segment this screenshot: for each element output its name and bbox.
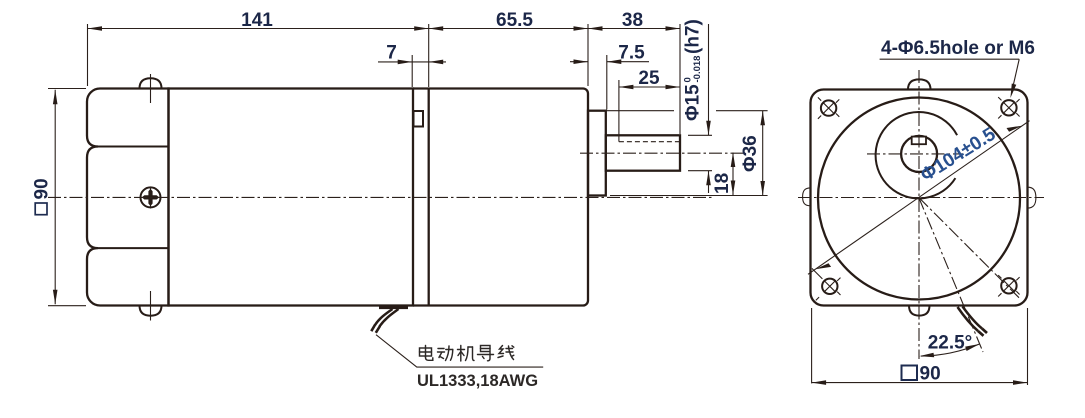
horizontal centerline (798, 197, 1044, 199)
corner hole bottom-right (998, 275, 1019, 296)
dimension phi15 line lower (708, 171, 710, 193)
diagonal centerline to bottom-right hole (919, 198, 1019, 298)
boss circle arc (876, 112, 958, 198)
gearhead cap outline (87, 89, 169, 306)
lead wire callout leader (376, 335, 543, 367)
motor lead wires (380, 309, 399, 327)
dimension 141 line (88, 28, 429, 30)
boss top extension (605, 110, 674, 112)
square90 top extension (48, 88, 86, 90)
dimension 25 (619, 86, 680, 88)
corner hole bottom-left (812, 268, 841, 300)
char 电 (420, 346, 433, 361)
extension line 7-left (411, 55, 413, 87)
bottom screw dome (140, 306, 162, 316)
svg-text:4-Φ6.5hole or M6: 4-Φ6.5hole or M6 (881, 38, 1035, 59)
dimension 7.5 (570, 61, 588, 63)
arrow 141 right (414, 26, 429, 31)
arrow 141 left (88, 26, 103, 31)
svg-text:65.5: 65.5 (496, 10, 533, 31)
dimension phi36 (762, 111, 764, 196)
svg-text:90: 90 (32, 178, 53, 199)
dimension 38 (588, 28, 680, 30)
face square90 text (902, 366, 918, 381)
top screw dome (140, 78, 162, 88)
dimension phi15 text (683, 19, 704, 121)
cap division line upper (98, 146, 169, 148)
face wires (958, 307, 979, 331)
center screw phillips cross (142, 189, 159, 206)
phi104 dimension line (808, 121, 1030, 275)
dimension 7 (378, 61, 412, 63)
wire grommet (379, 306, 408, 310)
square90 bottom extension (48, 305, 86, 307)
extension line shaft end (679, 24, 681, 134)
face square flange (811, 90, 1028, 306)
svg-text:22.5°: 22.5° (928, 333, 973, 354)
vertical centerline (918, 70, 920, 359)
dimension phi15 line upper (708, 24, 710, 135)
extension line 7.5-right (606, 55, 608, 110)
svg-text:Φ36: Φ36 (740, 135, 761, 172)
motor body (413, 89, 588, 306)
extension line 25-left (618, 80, 620, 142)
dimension 18 (732, 153, 734, 196)
flange ring right edge / motor joint (428, 89, 430, 306)
22.5 angle arc (921, 344, 980, 356)
center screw circle (141, 187, 161, 207)
svg-text:25: 25 (638, 68, 660, 89)
svg-text:7: 7 (386, 43, 397, 64)
top tab (908, 79, 931, 89)
center screw vertical tick (150, 187, 152, 209)
main axis centerline (48, 196, 712, 198)
shaft horizontal centerline (867, 153, 963, 155)
cap division line lower (98, 247, 169, 249)
char 机 (458, 346, 475, 362)
face big circle (motor body) (818, 98, 1020, 300)
right tab (1028, 187, 1036, 208)
wire end tips (371, 325, 380, 333)
22.5deg centerline (919, 198, 983, 353)
face square90 dimension (811, 308, 813, 383)
square90 text left (35, 203, 47, 215)
char 动 (438, 346, 453, 361)
bottom screw centerline (150, 291, 152, 321)
phi104 text (917, 124, 1000, 187)
svg-text:UL1333,18AWG: UL1333,18AWG (417, 372, 538, 390)
shaft top extension (688, 134, 712, 136)
svg-text:90: 90 (920, 364, 941, 385)
latch detail on flange (414, 111, 424, 127)
svg-text:141: 141 (241, 10, 273, 31)
char 线 (498, 346, 514, 360)
svg-text:18: 18 (712, 173, 733, 194)
extension line left (141) (87, 24, 89, 86)
gearcase body (169, 89, 414, 306)
svg-text:Φ15: Φ15 (683, 84, 704, 121)
extension line motor right (587, 24, 589, 86)
extension line at joint (428, 24, 430, 87)
face shaft circle (901, 136, 937, 172)
corner hole top-right (998, 97, 1019, 118)
char 导 (478, 346, 494, 361)
top screw centerline (150, 74, 152, 103)
shaft axis centerline (580, 152, 743, 154)
output shaft (606, 135, 680, 170)
square90 dim line (54, 90, 56, 305)
svg-text:-0.018: -0.018 (692, 56, 703, 83)
bottom tab (909, 306, 930, 316)
boss bottom extension (610, 195, 768, 197)
svg-text:7.5: 7.5 (618, 43, 645, 64)
keyway (912, 137, 926, 145)
output boss (588, 111, 606, 196)
shaft bottom extension (688, 170, 712, 172)
svg-text:(h7): (h7) (683, 19, 704, 54)
corner hole top-left (818, 97, 839, 118)
lead wire label chinese 电动机导线 (420, 346, 514, 362)
svg-text:38: 38 (622, 10, 643, 31)
left tab (803, 188, 811, 206)
dimension 65.5 (429, 28, 588, 30)
shaft flat hidden line (619, 141, 680, 143)
